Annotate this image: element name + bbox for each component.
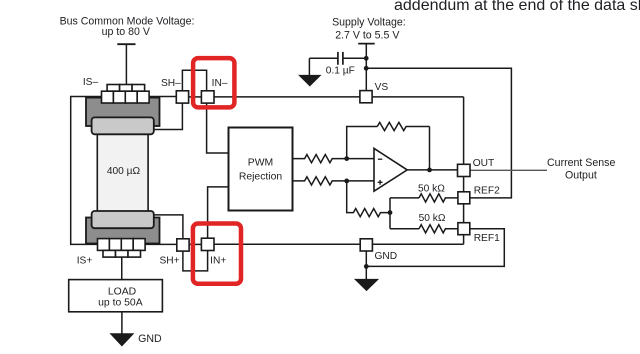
wire to op-amp inverting	[347, 158, 374, 160]
svg-text:Current Sense: Current Sense	[547, 157, 615, 169]
load box	[69, 280, 163, 312]
resistor input top	[293, 155, 347, 163]
svg-text:IN–: IN–	[212, 78, 228, 89]
pin REF1	[458, 223, 470, 235]
shunt resistor body dark bottom	[86, 218, 160, 244]
ground supply	[299, 75, 320, 85]
wire shunt bottom to SH+	[145, 243, 177, 245]
resistor 50k lower	[419, 225, 458, 233]
pin SH+	[177, 239, 189, 251]
wire REF1 to GND loop	[366, 229, 504, 267]
wire load to ground	[121, 312, 123, 334]
wire IN+ to PWM rejection input	[208, 187, 229, 238]
package outline top edge	[214, 96, 463, 98]
svg-text:IS–: IS–	[83, 77, 99, 88]
bus supply bar	[117, 43, 135, 45]
svg-text:PWM: PWM	[248, 157, 273, 168]
highlight box IN+	[193, 224, 241, 284]
svg-text:2.7 V to 5.5 V: 2.7 V to 5.5 V	[335, 29, 400, 41]
package outline bottom edge	[214, 243, 464, 245]
junction non-inverting node	[344, 179, 349, 184]
wire to op-amp non-inverting	[347, 180, 374, 182]
wire shunt sense top to SH- bottom	[154, 103, 183, 129]
wire feedback up	[347, 127, 378, 159]
svg-text:Rejection: Rejection	[239, 171, 283, 182]
wire OUT to output	[470, 169, 547, 171]
pin REF2	[458, 192, 470, 204]
wire jumper SH- top to IN- top	[182, 70, 206, 91]
resistor feedback	[377, 122, 429, 130]
wire capacitor to ground	[308, 58, 310, 75]
wire GND pin down	[365, 251, 367, 279]
shunt bottom terminal pads row big	[98, 239, 146, 251]
svg-text:Supply Voltage:: Supply Voltage:	[332, 17, 406, 29]
supply bar	[358, 43, 375, 45]
wire SH+ to IN+	[189, 243, 201, 245]
wire supply to VS	[365, 44, 367, 91]
op-amp U1	[374, 148, 407, 191]
junction output node	[427, 168, 432, 173]
wire shunt sense bottom to SH+ top	[154, 215, 183, 239]
svg-text:GND: GND	[375, 251, 398, 262]
capacitor C 0.1uF	[309, 57, 366, 59]
svg-text:VS: VS	[375, 82, 389, 93]
pin GND	[360, 239, 372, 251]
pin SH-	[176, 91, 188, 103]
svg-text:SH–: SH–	[161, 78, 181, 89]
svg-text:0.1 µF: 0.1 µF	[326, 66, 355, 77]
shunt bottom terminal pads row small	[103, 250, 141, 257]
wire supply rail to REF2	[366, 68, 511, 198]
package outline right edge	[463, 97, 465, 244]
shunt collar bottom	[92, 211, 154, 228]
svg-text:SH+: SH+	[159, 256, 179, 267]
wire IS- left leg	[71, 97, 102, 245]
pin OUT	[458, 164, 471, 176]
svg-text:up to 80 V: up to 80 V	[102, 26, 151, 38]
IC block PWM Rejection	[229, 128, 293, 211]
ground load	[111, 334, 134, 346]
wire IN- to PWM rejection input	[207, 103, 229, 153]
svg-text:REF1: REF1	[474, 233, 500, 244]
shunt top terminal pads row big	[102, 91, 150, 103]
wire shunt to SH-	[149, 96, 176, 98]
svg-text:OUT: OUT	[473, 158, 495, 169]
junction divider node	[388, 210, 393, 215]
svg-text:50 kΩ: 50 kΩ	[419, 213, 446, 224]
shunt element body 400 uOhm	[97, 128, 148, 226]
svg-text:Output: Output	[565, 169, 597, 181]
svg-text:addendum at the end of the dat: addendum at the end of the data sheet	[394, 0, 640, 14]
svg-text:LOAD: LOAD	[108, 286, 136, 297]
svg-text:IS+: IS+	[77, 255, 93, 266]
svg-text:REF2: REF2	[474, 185, 500, 196]
wire shunt bottom to load	[121, 257, 123, 279]
svg-text:400 µΩ: 400 µΩ	[107, 166, 141, 177]
shunt top terminal pads row small	[107, 85, 145, 92]
svg-text:GND: GND	[138, 333, 162, 345]
wire SH- to IN-	[189, 96, 202, 98]
svg-text:IN+: IN+	[210, 255, 226, 266]
pin IN+	[201, 238, 214, 250]
shunt resistor body dark top	[86, 98, 160, 126]
wire bus to shunt top	[125, 44, 127, 84]
highlight box IN-	[193, 58, 234, 107]
wire feedback down to output	[429, 127, 431, 170]
wire non-inverting to divider resistor	[347, 181, 390, 217]
junction ground node	[364, 264, 369, 269]
pin VS	[360, 91, 372, 103]
wire divider bracket	[390, 198, 419, 229]
junction supply node 2	[364, 66, 369, 71]
svg-text:50 kΩ: 50 kΩ	[418, 184, 445, 195]
resistor input bottom	[293, 177, 347, 185]
wire op-amp output to OUT	[407, 169, 457, 171]
ground IC	[355, 279, 378, 290]
junction supply node	[364, 56, 369, 61]
pin IN-	[201, 91, 214, 103]
junction inverting node	[344, 156, 349, 161]
wire jumper SH+ bottom to IN+ bottom	[183, 251, 208, 271]
resistor 50k upper	[419, 194, 458, 202]
shunt collar top	[92, 117, 154, 134]
svg-text:up to 50A: up to 50A	[98, 298, 143, 309]
